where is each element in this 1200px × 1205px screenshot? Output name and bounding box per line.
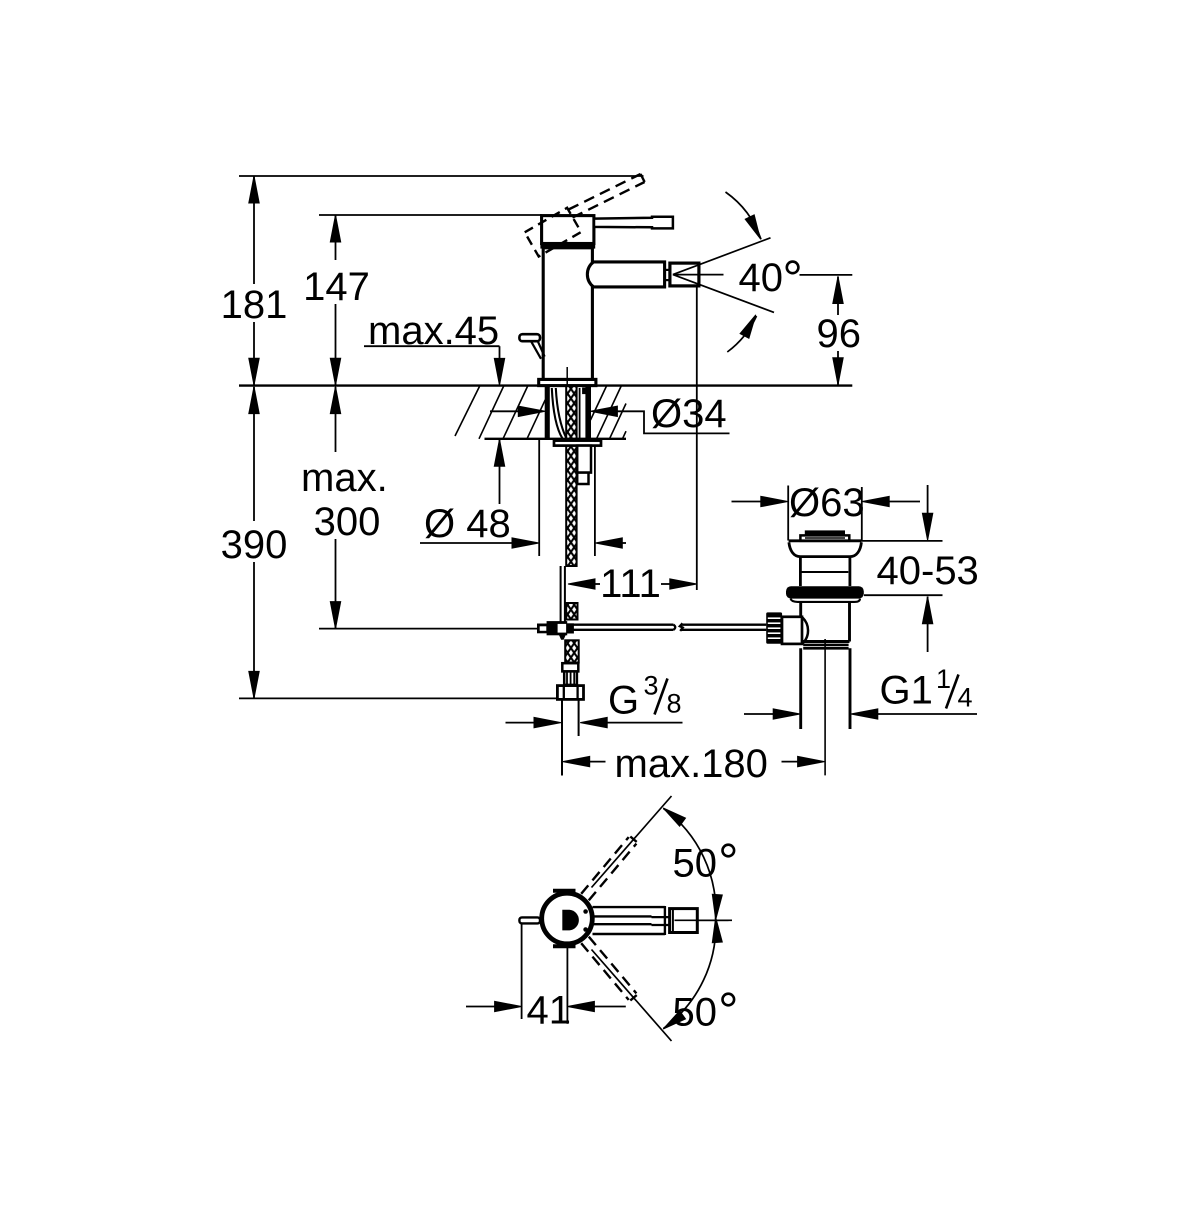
svg-text:40: 40 xyxy=(739,256,784,300)
svg-text:40-53: 40-53 xyxy=(877,549,979,593)
svg-text:50: 50 xyxy=(673,991,718,1035)
svg-text:1: 1 xyxy=(936,664,951,694)
svg-text:Ø 48: Ø 48 xyxy=(424,502,511,546)
svg-text:max.: max. xyxy=(301,456,388,500)
svg-text:50: 50 xyxy=(673,842,718,886)
svg-text:181: 181 xyxy=(221,283,288,327)
svg-text:G1: G1 xyxy=(880,669,933,713)
svg-text:390: 390 xyxy=(221,523,288,567)
svg-text:max.180: max.180 xyxy=(615,742,768,786)
svg-text:max.45: max.45 xyxy=(368,309,499,353)
svg-text:3: 3 xyxy=(644,671,659,701)
svg-text:147: 147 xyxy=(303,265,370,309)
svg-text:300: 300 xyxy=(314,500,381,544)
svg-text:G: G xyxy=(608,679,639,723)
svg-text:Ø34: Ø34 xyxy=(651,392,727,436)
svg-text:Ø63: Ø63 xyxy=(789,481,865,525)
svg-text:8: 8 xyxy=(667,689,682,719)
svg-text:111: 111 xyxy=(600,562,661,606)
svg-text:4: 4 xyxy=(958,683,973,713)
svg-text:41: 41 xyxy=(527,989,572,1033)
svg-text:96: 96 xyxy=(817,312,862,356)
